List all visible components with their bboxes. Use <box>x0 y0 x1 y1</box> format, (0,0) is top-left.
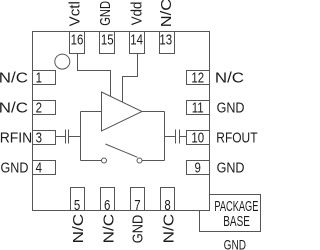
svg-text:8: 8 <box>164 197 170 214</box>
svg-text:N/C: N/C <box>215 70 244 86</box>
svg-text:GND: GND <box>217 160 245 176</box>
svg-text:12: 12 <box>191 69 204 86</box>
svg-text:GND: GND <box>217 99 245 115</box>
svg-text:N/C: N/C <box>71 214 87 244</box>
svg-text:14: 14 <box>130 31 143 48</box>
svg-text:N/C: N/C <box>0 70 28 86</box>
svg-text:4: 4 <box>36 159 42 176</box>
svg-text:BASE: BASE <box>223 213 250 229</box>
svg-text:10: 10 <box>191 129 204 146</box>
svg-text:6: 6 <box>104 197 110 214</box>
svg-text:Vctl: Vctl <box>67 1 84 26</box>
svg-text:5: 5 <box>74 197 80 214</box>
svg-text:RFIN: RFIN <box>0 130 32 146</box>
svg-text:15: 15 <box>101 31 114 48</box>
svg-text:2: 2 <box>36 99 42 116</box>
svg-text:GND: GND <box>224 237 247 250</box>
svg-text:11: 11 <box>192 99 204 116</box>
svg-text:16: 16 <box>71 31 84 48</box>
svg-text:N/C: N/C <box>159 0 175 27</box>
svg-text:9: 9 <box>195 159 201 176</box>
svg-text:3: 3 <box>36 129 42 146</box>
svg-text:1: 1 <box>36 69 42 86</box>
svg-text:N/C: N/C <box>0 100 28 116</box>
svg-text:GND: GND <box>1 160 29 176</box>
svg-text:GND: GND <box>96 1 113 26</box>
svg-text:Vdd: Vdd <box>128 2 145 26</box>
svg-text:N/C: N/C <box>162 214 178 244</box>
svg-text:RFOUT: RFOUT <box>216 129 257 145</box>
svg-text:GND: GND <box>130 215 146 243</box>
svg-text:13: 13 <box>159 31 172 48</box>
svg-text:7: 7 <box>134 197 140 214</box>
svg-text:N/C: N/C <box>101 214 117 244</box>
